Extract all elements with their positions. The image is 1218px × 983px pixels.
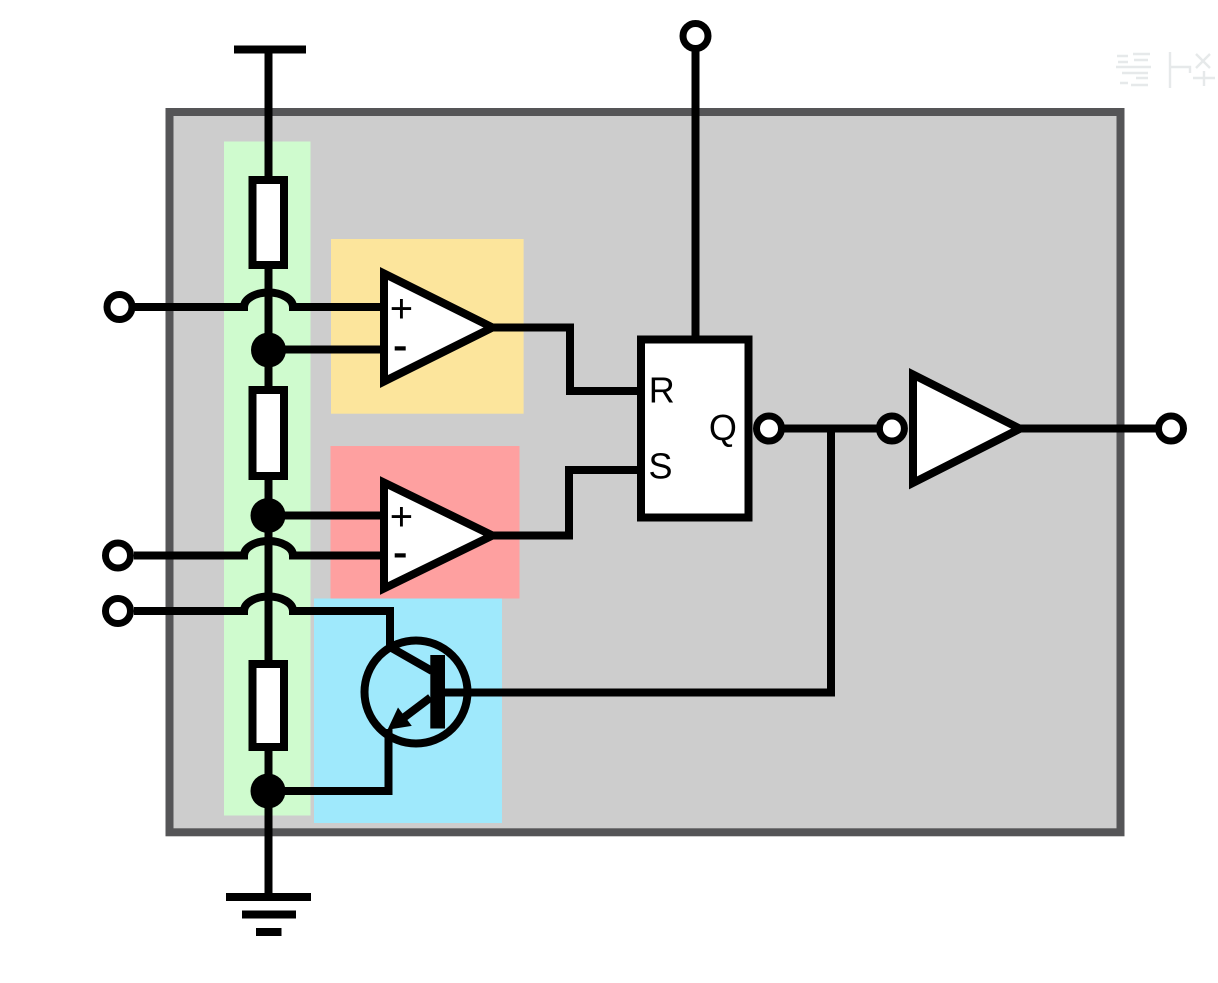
highlight region: discharge transistor (cyan) — [314, 599, 502, 824]
node B (junction dot) — [251, 498, 286, 533]
flip-flop U3 (SR latch) — [641, 340, 749, 518]
IC body U1 (555 timer outline) — [170, 112, 1121, 832]
wire: trigger terminal to comparator 2 - (with hop) — [134, 541, 388, 556]
comparator U1 (threshold) — [384, 274, 493, 382]
wire: divider chain (VCC to ground) — [265, 50, 273, 898]
wire: comparator 1 output to R input — [490, 328, 641, 392]
VCC supply bar — [234, 46, 306, 54]
wire: threshold terminal to comparator 1 + (with hop) — [135, 293, 388, 308]
resistor R3 — [253, 664, 285, 747]
terminal: output — [1159, 416, 1184, 441]
output buffer U4 — [913, 375, 1020, 483]
node A (junction dot) — [251, 333, 286, 368]
highlight region: comparator 2 (red) — [331, 446, 520, 599]
wire: discharge terminal to transistor collector (with hop) — [134, 597, 432, 672]
highlight region: comparator 1 (yellow) — [331, 239, 524, 414]
wire: node B to comparator 2 + — [269, 512, 389, 520]
terminal: trigger — [106, 543, 131, 568]
wire: node A to comparator 1 - — [269, 346, 389, 354]
transistor Q1 (discharge) — [365, 641, 468, 744]
Q output bubble — [757, 416, 782, 441]
wire: Q branch to transistor base — [445, 429, 831, 693]
ground — [226, 897, 311, 932]
highlight region: voltage divider (green) — [224, 142, 311, 816]
terminal: threshold — [107, 295, 132, 320]
node C (junction dot) — [251, 774, 286, 809]
svg-text:+: + — [390, 495, 413, 539]
buffer input bubble — [879, 416, 904, 441]
svg-text:R: R — [649, 370, 675, 411]
resistor R1 — [253, 180, 285, 265]
wire: Q output to buffer input — [781, 425, 878, 433]
svg-text:Q: Q — [709, 407, 737, 448]
wire: transistor emitter to node C — [268, 729, 389, 791]
wire: buffer output to output terminal — [1016, 425, 1158, 433]
faint watermark glyphs (top right) — [1116, 52, 1215, 88]
svg-text:S: S — [649, 446, 673, 487]
terminal: discharge — [106, 599, 131, 624]
terminal: reset — [683, 24, 708, 49]
wire: comparator 2 output to S input — [490, 470, 641, 536]
wire: reset terminal to flip-flop — [692, 43, 700, 340]
resistor R2 — [253, 390, 285, 476]
svg-text:+: + — [390, 287, 413, 331]
comparator U2 (trigger) — [384, 483, 493, 589]
